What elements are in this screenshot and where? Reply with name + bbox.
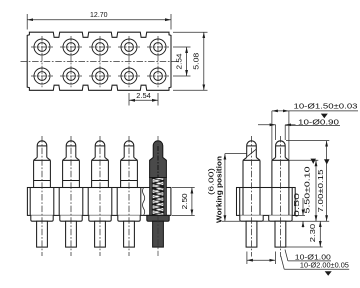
side view near row pin: flange bbox=[240, 215, 263, 221]
svg-text:5.08: 5.08 bbox=[191, 53, 200, 70]
side view near row pin: barrel (passes through housing) bbox=[243, 160, 260, 215]
front pin 4: barrel bbox=[121, 160, 138, 187]
svg-text:10-Ø1.00: 10-Ø1.00 bbox=[295, 252, 331, 261]
front pin 1: centerline bbox=[41, 136, 43, 256]
front pin 1: barrel step line above housing bbox=[34, 180, 51, 182]
dimension 2.54 (column pitch, below top view) bbox=[129, 91, 158, 106]
front view: housing band outline bbox=[27, 188, 171, 216]
svg-text:10-Ø1.50±0.03: 10-Ø1.50±0.03 bbox=[294, 102, 358, 111]
inspection mark (filled triangle, bottom) bbox=[325, 271, 332, 276]
svg-text:10-Ø2.00±0.05: 10-Ø2.00±0.05 bbox=[300, 263, 349, 270]
inspection mark (filled triangle, top) bbox=[321, 114, 328, 119]
front pin 4: plunger dome and neck bbox=[121, 141, 138, 161]
hole row2 col5 (plated hole) bbox=[147, 68, 169, 84]
label 10-Ø1.50±0.03 (barrel diameter) with extension lines bbox=[272, 102, 358, 160]
front pin 5 (sectioned, filled): plunger and barrel upper fill bbox=[150, 141, 167, 178]
front pin 3: flange bbox=[89, 215, 111, 221]
front pin 1: housing hole collar lines bbox=[30, 188, 54, 216]
side view: row pitch dimension below tails (untexted) bbox=[247, 252, 276, 265]
dimension 2.50 (housing height, right of front view) bbox=[172, 188, 195, 216]
label 10-Ø2.00±0.05 (flange diameter) with leader bbox=[281, 256, 349, 270]
top view: column centerlines bbox=[41, 36, 43, 87]
front pin 1: barrel bbox=[34, 160, 51, 187]
side view near row pin: solder tail bbox=[246, 221, 257, 247]
hole row2 col4 (plated hole) bbox=[118, 68, 140, 84]
hole row1 col2 (plated hole) bbox=[60, 39, 82, 55]
hole row2 col2 (plated hole) bbox=[60, 68, 82, 84]
svg-text:Working position: Working position bbox=[217, 156, 224, 223]
side view far row pin: solder tail bbox=[275, 221, 286, 247]
side view near row pin: plunger dome and neck bbox=[243, 141, 260, 160]
svg-text:(6.00): (6.00) bbox=[207, 168, 216, 195]
side view: housing block outline bbox=[237, 188, 296, 216]
svg-text:2.54: 2.54 bbox=[174, 54, 183, 70]
front pin 4: barrel step line above housing bbox=[121, 180, 138, 182]
side view: flange-bottom reference extension line bbox=[222, 220, 240, 222]
front pin 2: centerline bbox=[70, 136, 72, 256]
label 10-Ø0.90 (plunger diameter) with extension lines bbox=[258, 119, 340, 140]
dimension 2.30 (tail length) bbox=[286, 221, 323, 247]
side view far row pin: barrel (passes through housing) bbox=[272, 160, 289, 215]
front pin 4: housing hole collar lines bbox=[117, 188, 141, 216]
front pin 1: plunger dome and neck bbox=[34, 141, 51, 161]
hole row2 col3 (plated hole) bbox=[89, 68, 111, 84]
dimension 12.70 (overall width, top) bbox=[27, 10, 171, 29]
front pin 1: flange bbox=[31, 215, 53, 221]
front pin 5: solder tail (filled) bbox=[153, 221, 164, 247]
front pin 3: barrel bbox=[92, 160, 109, 187]
hole row1 col4 (plated hole) bbox=[118, 39, 140, 55]
dimension (6.00) working position (left of side view) bbox=[207, 154, 225, 223]
dimension 2.54 (row pitch, right of top view) bbox=[173, 47, 191, 76]
front pin 4: flange bbox=[118, 215, 140, 221]
front pin 3: barrel step line above housing bbox=[92, 180, 109, 182]
svg-text:0.50: 0.50 bbox=[292, 193, 301, 217]
side view: working position slash through dome bbox=[247, 149, 256, 156]
svg-text:7.00±0.15: 7.00±0.15 bbox=[318, 169, 325, 212]
front pin 2: barrel bbox=[63, 160, 80, 187]
top view: connector body outline (plan) with edge notches bbox=[27, 32, 171, 90]
top view: horizontal centerline bbox=[21, 61, 178, 63]
dimension 5.08 (body depth, right of top view) bbox=[173, 32, 208, 90]
front pin 2: flange bbox=[60, 215, 82, 221]
side view far row pin: plunger dome and neck bbox=[272, 141, 289, 161]
svg-text:2.50: 2.50 bbox=[180, 193, 189, 209]
side view near row pin: centerline bbox=[251, 136, 253, 257]
front pin 5: centerline bbox=[157, 136, 159, 145]
svg-text:12.70: 12.70 bbox=[90, 10, 108, 19]
dimension 5.50±0.10 (barrel top to flange bottom) bbox=[289, 159, 318, 222]
svg-text:5.50±0.10: 5.50±0.10 bbox=[305, 166, 312, 213]
hole row2 col1 (plated hole) bbox=[31, 68, 53, 84]
dimension 7.00±0.15 (free height) bbox=[286, 141, 330, 222]
hole row1 col5 (plated hole) bbox=[147, 39, 169, 55]
hole row1 col1 (plated hole) bbox=[31, 39, 53, 55]
front pin 4: centerline bbox=[128, 136, 130, 256]
front pin 2: housing hole collar lines bbox=[59, 188, 83, 216]
svg-text:10-Ø0.90: 10-Ø0.90 bbox=[298, 119, 339, 126]
side view far row pin: centerline bbox=[279, 136, 281, 257]
dimension 0.50 (flange height) bbox=[292, 193, 305, 228]
side view far row pin: flange bbox=[269, 215, 292, 221]
front pin 5: barrel side walls (section) bbox=[150, 178, 153, 216]
front pin 3: housing hole collar lines bbox=[88, 188, 112, 216]
hole row1 col3 (plated hole) bbox=[89, 39, 111, 55]
front view: housing section break line (wavy) bbox=[143, 188, 145, 216]
front pin 3: centerline bbox=[99, 136, 101, 256]
svg-text:2.54: 2.54 bbox=[136, 91, 151, 100]
front pin 1: solder tail bbox=[37, 221, 48, 247]
front pin 2: solder tail bbox=[66, 221, 77, 247]
svg-text:2.30: 2.30 bbox=[308, 224, 317, 243]
front pin 5: flange (filled) bbox=[147, 215, 169, 221]
front pin 3: solder tail bbox=[95, 221, 106, 247]
front pin 4: solder tail bbox=[124, 221, 135, 247]
front pin 2: barrel step line above housing bbox=[63, 180, 80, 182]
front pin 2: plunger dome and neck bbox=[63, 141, 80, 161]
label 10-Ø1.00 (tail diameter) with leader bbox=[285, 250, 331, 262]
front pin 3: plunger dome and neck bbox=[92, 141, 109, 161]
side view: working position level line across near pin tip bbox=[225, 153, 247, 155]
side view: housing hole collar lines bbox=[239, 188, 241, 216]
front pin 5: spring coil (section) bbox=[152, 178, 163, 215]
